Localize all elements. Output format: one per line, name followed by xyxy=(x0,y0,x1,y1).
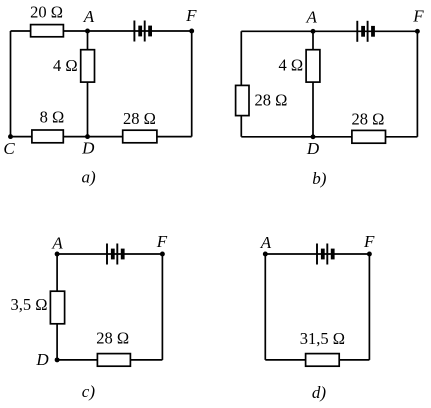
svg-text:8 Ω: 8 Ω xyxy=(40,107,65,126)
wire c: right (F down) xyxy=(161,254,163,360)
node D (c) xyxy=(55,357,60,362)
battery (a) xyxy=(133,21,152,42)
wire b: middle branch A-D xyxy=(312,31,314,137)
svg-text:F: F xyxy=(412,6,424,25)
resistor 31,5 Ω (d) xyxy=(306,354,340,367)
node D (b) xyxy=(311,134,316,139)
wire b: bottom (D-corner) xyxy=(241,136,417,138)
wire b: top (corner-A-F) xyxy=(241,30,417,32)
wire d: right (F down) xyxy=(368,254,370,360)
svg-text:4 Ω: 4 Ω xyxy=(53,56,78,75)
svg-text:D: D xyxy=(306,139,320,158)
svg-text:A: A xyxy=(306,8,318,27)
node A (d) xyxy=(263,252,268,257)
svg-text:28 Ω: 28 Ω xyxy=(255,90,288,109)
resistor 4 Ω (a) xyxy=(81,50,95,82)
node F (b) xyxy=(415,29,420,34)
svg-text:A: A xyxy=(83,7,95,26)
svg-text:a): a) xyxy=(82,168,97,187)
wire a: middle branch A-D xyxy=(87,31,89,137)
svg-text:A: A xyxy=(51,233,63,252)
wire d: top (A-F) xyxy=(265,253,369,255)
svg-text:31,5 Ω: 31,5 Ω xyxy=(300,329,345,348)
wire c: left (A-D) xyxy=(56,254,58,360)
svg-text:C: C xyxy=(3,139,15,158)
node C (a) xyxy=(8,134,13,139)
battery (b) xyxy=(356,21,375,42)
resistor 28 Ω left (b) xyxy=(236,85,249,115)
svg-text:D: D xyxy=(35,350,49,369)
resistor 4 Ω (b) xyxy=(306,50,320,82)
wire b: right (F down) xyxy=(416,31,418,137)
wire d: bottom xyxy=(265,359,369,361)
svg-text:20 Ω: 20 Ω xyxy=(30,2,63,21)
wire c: bottom (D-corner) xyxy=(57,359,162,361)
svg-text:3,5 Ω: 3,5 Ω xyxy=(10,295,47,314)
svg-text:b): b) xyxy=(312,169,327,188)
resistor 28 Ω (a) xyxy=(123,130,157,143)
wire a: right (F down) xyxy=(191,31,193,137)
svg-text:28 Ω: 28 Ω xyxy=(123,109,156,128)
svg-text:c): c) xyxy=(82,382,96,401)
node F (a) xyxy=(189,29,194,34)
svg-text:F: F xyxy=(156,232,168,251)
node D (a) xyxy=(85,134,90,139)
wire c: top (A-F) xyxy=(57,253,162,255)
node A (b) xyxy=(311,29,316,34)
node F (d) xyxy=(367,252,372,257)
battery (d) xyxy=(316,244,335,265)
resistor 28 Ω bottom (b) xyxy=(352,130,386,143)
node A (a) xyxy=(85,29,90,34)
node F (c) xyxy=(160,252,165,257)
resistor 8 Ω (a) xyxy=(32,130,63,143)
svg-text:A: A xyxy=(260,233,272,252)
svg-text:4 Ω: 4 Ω xyxy=(278,55,303,74)
svg-text:28 Ω: 28 Ω xyxy=(96,329,129,348)
resistor 20 Ω (a) xyxy=(31,25,64,37)
battery (c) xyxy=(106,244,125,265)
svg-text:D: D xyxy=(81,139,95,158)
resistor 3,5 Ω (c) xyxy=(50,291,64,324)
svg-text:F: F xyxy=(363,232,375,251)
node A (c) xyxy=(55,252,60,257)
resistor 28 Ω (c) xyxy=(97,354,130,367)
svg-text:d): d) xyxy=(312,383,327,402)
wire a: bottom (C-D-corner) xyxy=(11,136,192,138)
svg-text:28 Ω: 28 Ω xyxy=(352,109,385,128)
wire b: left side xyxy=(240,31,242,137)
svg-text:F: F xyxy=(185,6,197,25)
wire a: top (corner-A-F) xyxy=(11,30,192,32)
wire a: left (corner to C) xyxy=(10,31,12,137)
wire d: left side xyxy=(264,254,266,360)
